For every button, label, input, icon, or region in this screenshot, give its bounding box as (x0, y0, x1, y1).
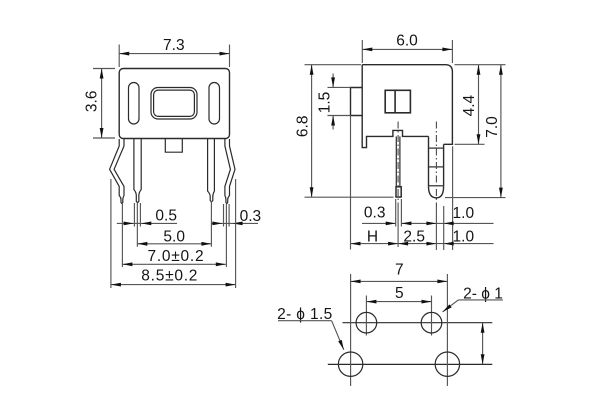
svg-text:7.3: 7.3 (163, 37, 185, 54)
svg-text:H: H (367, 228, 378, 245)
svg-text:6.0: 6.0 (396, 32, 418, 49)
svg-text:0.3: 0.3 (364, 205, 386, 222)
svg-text:7.0±0.2: 7.0±0.2 (147, 248, 204, 265)
svg-text:7.0: 7.0 (484, 116, 501, 138)
svg-text:6.8: 6.8 (295, 116, 312, 138)
svg-text:7: 7 (395, 261, 404, 278)
svg-text:8.5±0.2: 8.5±0.2 (141, 268, 198, 285)
svg-text:0.5: 0.5 (155, 207, 177, 224)
svg-text:1.0: 1.0 (453, 205, 475, 222)
svg-text:5: 5 (395, 285, 404, 302)
svg-text:5.0: 5.0 (163, 228, 185, 245)
svg-text:1.5: 1.5 (316, 92, 333, 114)
svg-text:2.5: 2.5 (403, 228, 425, 245)
svg-text:1.0: 1.0 (453, 228, 475, 245)
svg-text:4.4: 4.4 (461, 94, 478, 116)
svg-text:0.3: 0.3 (240, 208, 262, 225)
svg-text:3.6: 3.6 (84, 91, 101, 113)
